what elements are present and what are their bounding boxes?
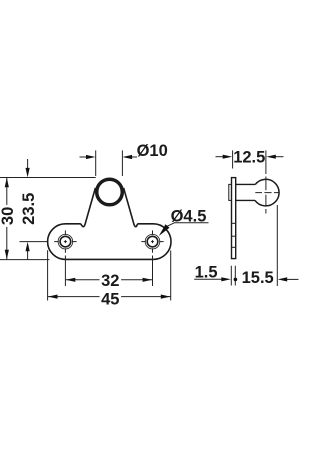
dimension 30: label	[0, 205, 17, 227]
side view: screw hole lower edge line	[232, 246, 236, 248]
dimension 45: right arrow	[161, 295, 171, 299]
dimension 32: extension line right (hole centerline)	[152, 256, 154, 287]
svg-text:12.5: 12.5	[233, 149, 265, 167]
side view: plate top edge line	[232, 222, 236, 224]
dimension 30: bottom arrow	[5, 250, 9, 260]
screw hole right: bore thick ring	[147, 236, 158, 247]
dimension Ø10: extension lines	[96, 150, 123, 176]
side view: ball horizontal centerline (dashed)	[255, 192, 278, 194]
bottom extension line: plate right face	[234, 266, 236, 286]
hole-center reference extension line	[20, 241, 49, 243]
dimension 45: label	[100, 291, 122, 309]
svg-text:30: 30	[0, 207, 17, 225]
dimension 30: top arrow	[5, 178, 9, 188]
side view: screw hole upper edge line	[232, 235, 236, 237]
dimension 12.5: extension line right (ball centerline)	[265, 150, 267, 174]
dimension 23.5: bottom outside arrow	[27, 250, 29, 259]
dimension Ø10: right arrow	[124, 156, 137, 158]
screw hole left: center mark	[54, 230, 76, 252]
dimension 12.5: left outside arrow	[216, 156, 225, 158]
label Ø4.5: landing line	[174, 222, 209, 224]
dimension Ø10: left arrow	[80, 156, 94, 158]
dimension 12.5: right outside arrow	[275, 156, 284, 158]
dimension 32: left arrow	[66, 278, 76, 282]
dimension 23.5: label	[20, 193, 38, 225]
dimension 12.5: extension line left	[232, 150, 234, 168]
dimension 23.5: top outside arrow	[27, 159, 29, 169]
svg-text:32: 32	[101, 272, 119, 290]
dimension 30: dimension line	[6, 178, 8, 260]
dimension 45: extension line right (plate edge)	[170, 251, 172, 301]
bottom extension line: plate left face	[230, 266, 232, 286]
screw hole left: outer countersink circle	[58, 234, 73, 249]
front view: plate outline (pill with eyelet tower)	[48, 188, 171, 260]
dimension 15.5: right outside arrow	[286, 278, 299, 280]
side view: ball	[255, 179, 279, 206]
svg-text:1.5: 1.5	[195, 263, 218, 281]
screw hole right: outer countersink circle	[145, 234, 160, 249]
dimension 45: left arrow	[48, 295, 58, 299]
svg-text:Ø4.5: Ø4.5	[171, 207, 207, 225]
side view: boss flange on back	[229, 184, 232, 200]
dimension 32: label	[100, 272, 122, 290]
side view: plate rectangle	[232, 178, 236, 259]
dimension 32: extension line left (hole centerline)	[64, 256, 66, 287]
dimension 32: dimension line	[65, 279, 152, 281]
side view: stud top line	[236, 183, 256, 185]
side view: ball vertical centerline (dashed)	[265, 177, 267, 214]
screw hole left: bore thick ring	[60, 236, 71, 247]
dimension 45: dimension line	[48, 296, 171, 298]
dimension 15.5: start dot	[234, 278, 238, 282]
screw hole right: center mark	[141, 230, 163, 252]
svg-text:15.5: 15.5	[242, 269, 274, 287]
svg-text:45: 45	[101, 291, 119, 309]
eyelet boss thick ring with Ø10 hole	[97, 179, 123, 205]
side view: stud bottom line	[236, 199, 255, 201]
dimension 45: extension line left (plate edge)	[47, 250, 49, 300]
top reference extension line	[0, 177, 96, 179]
svg-text:23.5: 23.5	[20, 193, 38, 225]
dimension 15.5: extension line right (ball edge)	[276, 205, 278, 286]
bottom reference extension line	[0, 259, 49, 261]
svg-text:Ø10: Ø10	[137, 142, 168, 160]
dimension 32: right arrow	[143, 278, 153, 282]
label Ø4.5: leader arrow to right hole	[165, 223, 175, 228]
